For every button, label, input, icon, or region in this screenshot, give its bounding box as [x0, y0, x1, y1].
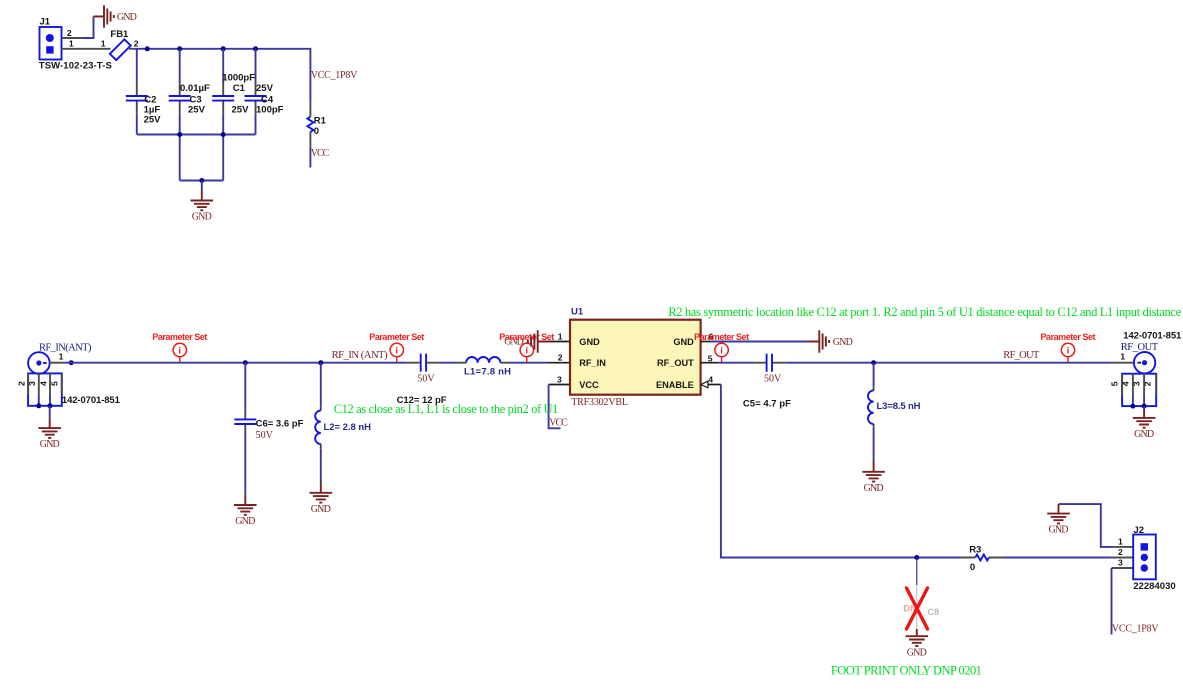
svg-text:22284030: 22284030 [1133, 581, 1176, 592]
svg-text:C1: C1 [233, 83, 246, 94]
shield pins 5-2 of right coax [1109, 374, 1156, 406]
svg-text:3: 3 [27, 381, 37, 386]
capacitor C1 [212, 49, 255, 181]
ground GND (rotated, near J1) [94, 5, 137, 28]
ferrite bead FB1 [110, 29, 139, 60]
node junction C8 [914, 555, 919, 560]
wire U1 pin3 to VCC [549, 385, 561, 429]
svg-text:Parameter Set: Parameter Set [369, 332, 424, 342]
wire L1 to U1 pin2 [509, 362, 548, 364]
svg-text:GND: GND [907, 647, 927, 658]
svg-text:R3: R3 [969, 544, 981, 555]
svg-text:GND: GND [192, 212, 212, 223]
svg-text:GND: GND [235, 516, 255, 527]
svg-text:FOOT PRINT ONLY DNP 0201: FOOT PRINT ONLY DNP 0201 [831, 664, 982, 678]
resistor R3 [961, 544, 1003, 573]
svg-text:RF_IN(ANT): RF_IN(ANT) [39, 343, 92, 354]
svg-text:Parameter Set: Parameter Set [694, 332, 749, 342]
svg-text:RF_OUT: RF_OUT [1121, 342, 1159, 353]
wire U1 pin5 to C5 [718, 362, 754, 364]
wire top rail VCC_1P8V [134, 49, 310, 103]
pin 3 of U1 [549, 374, 570, 384]
svg-text:0: 0 [314, 126, 319, 137]
node junctions on top rail [145, 46, 258, 51]
wire cap bottom rail 1 [137, 134, 256, 136]
parameter set 1 [152, 332, 207, 363]
pin 2 of J1 [62, 28, 84, 38]
wire cap bottom rail 2 [180, 180, 224, 182]
svg-text:VCC_1P8V: VCC_1P8V [1112, 624, 1159, 635]
node junctions rail 1 [177, 132, 226, 137]
svg-text:GND: GND [864, 483, 884, 494]
svg-text:C5= 4.7 pF: C5= 4.7 pF [743, 398, 791, 409]
svg-text:VCC: VCC [311, 148, 330, 159]
svg-text:GND: GND [40, 439, 60, 450]
node junction L2 [318, 360, 323, 365]
wire J1 pin2 to GND [83, 17, 94, 39]
svg-text:L3=8.5 nH: L3=8.5 nH [877, 401, 921, 412]
wire J2 pin3 to VCC_1P8V [1111, 568, 1113, 635]
svg-text:C12 as close as L1, L1 is clos: C12 as close as L1, L1 is close to the p… [334, 402, 559, 416]
svg-text:L1=7.8 nH: L1=7.8 nH [464, 367, 511, 378]
pin 3 of J2 [1112, 567, 1134, 569]
ground GND (left coax) [38, 417, 61, 450]
svg-text:Parameter Set: Parameter Set [499, 332, 554, 342]
svg-text:3: 3 [557, 374, 562, 384]
svg-text:2: 2 [1118, 547, 1123, 557]
svg-text:i: i [1067, 345, 1070, 355]
wire to ground [201, 181, 203, 190]
svg-text:1: 1 [101, 39, 106, 49]
svg-text:J2: J2 [1134, 525, 1145, 536]
wire U1 pin6 to GND [712, 341, 809, 343]
svg-text:50V: 50V [417, 374, 435, 385]
ground GND (rotated, at U1 pin1) [528, 330, 550, 353]
ground GND (under L3) [862, 461, 885, 494]
capacitor C12 [397, 354, 447, 406]
parameter set 2 [369, 332, 424, 363]
ground GND (under C6) [234, 494, 257, 527]
pin 4 of U1 ENABLE [701, 374, 721, 387]
svg-text:FB1: FB1 [110, 29, 129, 40]
svg-text:25V: 25V [256, 83, 274, 94]
svg-text:C8: C8 [928, 607, 940, 617]
svg-text:GND: GND [579, 337, 600, 347]
node junction pin1 [69, 360, 74, 365]
capacitor C6 [234, 363, 303, 495]
svg-text:RF_IN (ANT): RF_IN (ANT) [332, 350, 389, 361]
svg-text:GND: GND [117, 12, 137, 23]
capacitor C4 [245, 49, 284, 135]
svg-text:1: 1 [558, 331, 563, 341]
pin 5 of U1 [701, 353, 718, 363]
ground GND (below capacitor bank) [191, 190, 214, 223]
svg-text:GND: GND [1134, 429, 1154, 440]
ground GND (above J2) [1047, 504, 1070, 536]
inductor L1 [458, 357, 512, 378]
svg-text:Parameter Set: Parameter Set [1041, 332, 1096, 342]
pin 1 of J1 [62, 39, 111, 49]
capacitor C8 (DNI, crossed out) [904, 558, 940, 630]
svg-text:GND: GND [311, 504, 331, 515]
resistor R1 [307, 103, 326, 147]
node junctions left coax shield [36, 403, 52, 408]
ground GND (rotated, at U1 pin6) [809, 330, 853, 353]
svg-text:50V: 50V [764, 374, 782, 385]
connector J2 22284030 [1118, 525, 1176, 592]
svg-text:0: 0 [970, 562, 975, 573]
svg-text:4: 4 [1121, 381, 1131, 386]
wire RF_OUT main [786, 362, 1112, 364]
pin 1 of J2 [1112, 546, 1134, 548]
svg-text:2: 2 [17, 381, 27, 386]
ground GND (under L2) [310, 482, 333, 515]
svg-text:i: i [179, 345, 182, 355]
svg-text:25V: 25V [188, 104, 206, 115]
coax connector J? RF_IN 142-0701-851 [28, 352, 50, 374]
svg-text:2: 2 [134, 39, 139, 49]
svg-text:ENABLE: ENABLE [656, 380, 694, 390]
svg-text:3: 3 [1131, 381, 1141, 386]
svg-text:3: 3 [1118, 558, 1123, 568]
svg-text:2: 2 [67, 28, 72, 38]
parameter set 3 [499, 332, 554, 363]
svg-text:5: 5 [708, 353, 713, 363]
svg-text:100pF: 100pF [256, 104, 284, 115]
node junction rail 2 [199, 178, 204, 183]
node junctions right coax shield [1130, 404, 1146, 409]
svg-text:Parameter Set: Parameter Set [152, 332, 207, 342]
svg-text:VCC: VCC [549, 418, 568, 429]
svg-text:25V: 25V [232, 104, 250, 115]
svg-text:1000pF: 1000pF [222, 72, 255, 83]
svg-text:25V: 25V [144, 114, 162, 125]
svg-text:i: i [396, 345, 399, 355]
svg-text:50V: 50V [256, 430, 274, 441]
pin 2 of J2 [1112, 557, 1134, 559]
svg-text:2: 2 [558, 353, 563, 363]
pin 1 of U1 [550, 331, 571, 341]
svg-text:i: i [526, 345, 529, 355]
svg-text:5: 5 [1109, 381, 1119, 386]
wire R1 to VCC [309, 146, 311, 167]
svg-text:J1: J1 [40, 17, 51, 28]
svg-text:142-0701-851: 142-0701-851 [62, 395, 121, 406]
op-amp U1 TRF3302VBL body [570, 307, 701, 408]
parameter set 5 [1041, 332, 1096, 363]
capacitor C3 [169, 49, 210, 181]
svg-text:1: 1 [1120, 352, 1125, 362]
svg-text:142-0701-851: 142-0701-851 [1123, 331, 1182, 342]
pin 2 of FB1 [129, 48, 134, 50]
svg-text:U1: U1 [571, 307, 584, 318]
svg-text:R2 has symmetric location like: R2 has symmetric location like C12 at po… [668, 305, 1181, 319]
svg-text:RF_IN: RF_IN [579, 358, 606, 368]
svg-text:GND: GND [673, 337, 694, 347]
wire RF_IN main [65, 362, 407, 364]
svg-text:1: 1 [69, 39, 74, 49]
svg-text:5: 5 [50, 381, 60, 386]
ground GND (under C8) [906, 629, 929, 658]
wire R3 to J2 pin2 [1003, 557, 1112, 559]
svg-text:0.01µF: 0.01µF [180, 83, 210, 94]
svg-text:GND: GND [833, 337, 853, 348]
svg-text:VCC_1P8V: VCC_1P8V [311, 70, 358, 81]
parameter set 4 [694, 332, 749, 363]
svg-text:GND: GND [1049, 525, 1069, 536]
svg-text:RF_OUT: RF_OUT [1003, 350, 1040, 361]
capacitor C2 [126, 49, 161, 135]
svg-text:L2= 2.8 nH: L2= 2.8 nH [324, 422, 372, 433]
pin 2 of U1 [548, 353, 570, 363]
inductor L2 [315, 363, 371, 482]
svg-text:TSW-102-23-T-S: TSW-102-23-T-S [39, 60, 112, 71]
svg-text:RF_OUT: RF_OUT [657, 358, 694, 368]
svg-text:1: 1 [1118, 537, 1123, 547]
svg-text:i: i [720, 345, 723, 355]
svg-text:1: 1 [59, 351, 64, 361]
inductor L3 [868, 363, 921, 461]
pin 6 of U1 [701, 331, 714, 341]
connector J1 [39, 17, 112, 72]
node junction C6 [243, 360, 248, 365]
pin 1 of left coax [50, 351, 65, 362]
wire C12 to L1 [440, 362, 458, 364]
coax connector RF_OUT 142-0701-851 [1112, 331, 1182, 374]
svg-text:TRF3302VBL: TRF3302VBL [571, 397, 628, 408]
svg-text:4: 4 [38, 381, 48, 386]
capacitor C5 [743, 354, 791, 410]
wire J2 pin1 to GND [1059, 504, 1112, 547]
ground GND (right coax) [1133, 409, 1156, 440]
node junction L3 [871, 360, 876, 365]
svg-text:VCC: VCC [579, 380, 599, 390]
wire shield to ground [49, 406, 51, 417]
svg-text:C6= 3.6 pF: C6= 3.6 pF [256, 418, 304, 429]
svg-text:4: 4 [708, 374, 713, 384]
shield pins 2-5 of left coax [17, 373, 121, 405]
wire ENABLE down to bottom rail [721, 385, 961, 558]
svg-text:R1: R1 [314, 115, 327, 126]
wire shield to ground [1143, 406, 1145, 409]
svg-text:2: 2 [1143, 381, 1153, 386]
